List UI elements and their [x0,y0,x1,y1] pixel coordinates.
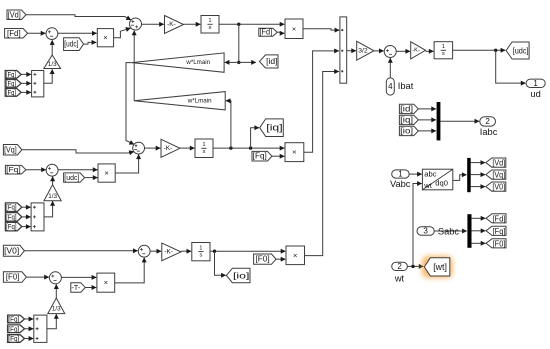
svg-text:[udc]: [udc] [64,173,79,182]
svg-text:w*Lmain: w*Lmain [187,97,212,104]
svg-text:[V0]: [V0] [492,182,505,192]
svg-text:wt: wt [423,181,432,190]
svg-text:×: × [292,148,296,157]
svg-text:[F0]: [F0] [493,238,506,248]
svg-text:s: s [442,51,445,57]
svg-text:[id]: [id] [400,104,413,113]
svg-text:[Fd]: [Fd] [7,29,21,38]
svg-text:1: 1 [202,142,205,148]
svg-text:[io]: [io] [233,270,249,280]
svg-text:[Fq]: [Fq] [6,88,16,97]
svg-text:2: 2 [485,117,490,126]
svg-text:[Vq]: [Vq] [492,170,505,180]
svg-text:×: × [103,33,107,42]
svg-text:[Fd]: [Fd] [260,28,273,37]
svg-text:[iq]: [iq] [400,115,413,124]
svg-text:[V0]: [V0] [4,246,19,255]
svg-text:[Fq]: [Fq] [6,165,21,174]
svg-text:2: 2 [397,262,402,271]
svg-text:dq0: dq0 [435,178,448,187]
svg-text:Ibat: Ibat [398,81,414,91]
svg-text:1: 1 [442,44,445,50]
svg-text:1: 1 [208,18,211,24]
svg-text:abc: abc [424,169,436,178]
svg-text:1: 1 [398,170,403,179]
svg-text:[Fq]: [Fq] [8,314,19,323]
svg-text:×: × [104,169,108,178]
svg-text:×: × [104,278,108,287]
svg-text:Vabc: Vabc [390,179,411,189]
svg-text:[Fq]: [Fq] [8,334,19,343]
svg-text:[Fq]: [Fq] [6,203,17,212]
svg-text:[udc]: [udc] [64,40,78,49]
svg-text:[iq]: [iq] [266,123,282,133]
svg-text:[Vd]: [Vd] [492,158,505,168]
svg-text:3: 3 [423,227,428,236]
svg-text:[Fq]: [Fq] [253,152,267,161]
svg-text:1/3: 1/3 [48,61,57,68]
svg-text:[F0]: [F0] [6,273,20,282]
svg-text:[io]: [io] [400,126,413,135]
svg-text:s: s [199,252,202,258]
svg-text:[Fd]: [Fd] [493,213,506,223]
svg-text:s: s [209,25,212,31]
svg-text:-K-: -K- [412,47,420,53]
svg-text:[Fq]: [Fq] [8,324,19,333]
svg-text:ud: ud [530,89,540,99]
svg-text:w*Lmain: w*Lmain [185,59,210,66]
svg-text:1/3: 1/3 [48,193,57,200]
svg-text:-K-: -K- [164,248,173,255]
svg-text:1: 1 [533,79,538,88]
svg-text:1: 1 [199,245,202,251]
svg-text:wt: wt [394,274,405,284]
svg-text:[Fq]: [Fq] [6,222,17,231]
svg-text:-K-: -K- [167,21,176,28]
svg-text:[wt]: [wt] [433,262,447,272]
svg-text:[F0]: [F0] [255,255,269,264]
svg-text:-T-: -T- [72,283,81,292]
svg-text:[Fq]: [Fq] [6,212,17,221]
svg-text:[Vq]: [Vq] [4,145,17,154]
svg-text:s: s [203,149,206,155]
svg-text:[udc]: [udc] [513,46,529,56]
svg-text:Iabc: Iabc [480,127,498,137]
svg-text:×: × [292,24,296,33]
svg-text:Sabc: Sabc [438,226,460,236]
svg-text:[Fq]: [Fq] [6,70,16,79]
svg-text:[Fq]: [Fq] [493,226,506,236]
svg-text:4: 4 [388,82,393,91]
svg-text:3/2: 3/2 [358,47,368,54]
svg-text:[Fq]: [Fq] [6,79,16,88]
svg-text:1/3: 1/3 [52,306,61,313]
svg-text:[Vd]: [Vd] [8,10,21,19]
svg-text:-K-: -K- [164,145,173,152]
svg-text:×: × [293,251,297,260]
svg-text:[id]: [id] [266,57,277,66]
